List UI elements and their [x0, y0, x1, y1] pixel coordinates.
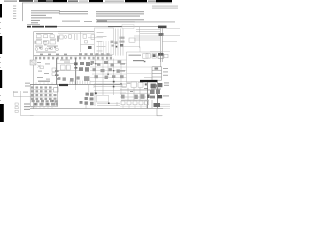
connector CN301 — [158, 26, 167, 62]
resistors R401-R408 — [37, 60, 70, 80]
resistors R216-R225 on bus — [40, 53, 110, 55]
wire deck outputs — [76, 85, 95, 92]
resistors R601-R613 coupling — [91, 60, 124, 79]
node audio junctions — [95, 63, 114, 75]
deck pcb outline — [30, 85, 57, 107]
wire input to IC601 — [144, 77, 152, 79]
connector CN403 pins — [36, 82, 52, 84]
C701 row value labels — [31, 106, 35, 107]
IC601 reference label — [133, 60, 144, 61]
AM tuner unit outline X201 — [95, 28, 114, 55]
wire B+ feed to IC601 — [160, 52, 162, 67]
wire main ground rail — [55, 58, 58, 85]
detector coil L203 — [81, 32, 95, 52]
wire IF signal rails — [58, 32, 94, 34]
logic ICs IC401 IC402 — [57, 64, 80, 71]
wire control bus to front panel — [116, 29, 124, 56]
power amp Q701 Q702 IC704 — [120, 82, 150, 100]
capacitors C210 C212 C214 — [39, 47, 56, 50]
relay RY701 coil — [158, 53, 164, 56]
resistors R201-R215 value labels — [35, 46, 58, 53]
AC power transformer T702 — [154, 103, 161, 107]
main pcb outline left — [34, 32, 94, 109]
motor servo Q401-Q404 cluster — [79, 62, 92, 72]
wire B+ rail — [74, 58, 77, 85]
transistors Q601-Q606 mute cluster — [80, 93, 94, 106]
IF transformers T205 T206 — [83, 34, 95, 39]
wire supply rails to output — [148, 82, 158, 108]
capacitors C220-C236 decoupling row — [35, 57, 112, 60]
deck section label — [38, 81, 50, 82]
relay RY701 contacts — [158, 56, 164, 59]
heatsink regulator IC701 — [153, 54, 156, 57]
binding fold marks — [0, 22, 1, 101]
wire AM/FM B+ bus — [34, 54, 113, 57]
connector CN601 pin stubs — [120, 63, 125, 72]
header model text — [4, 0, 17, 2]
diodes D701 D702 — [145, 83, 150, 98]
IF strip CF201 Q206 T204 — [60, 34, 78, 40]
trimmer capacitor CT401 — [38, 65, 41, 68]
terminal labels L/R — [24, 103, 30, 110]
wire mute cluster leads — [86, 92, 95, 108]
C712 row value labels — [121, 99, 149, 102]
wire ladder feed — [139, 27, 141, 48]
notes small top-right — [152, 6, 178, 9]
wire capacitor ground leads — [123, 105, 147, 108]
emitter resistors R701-R706 — [121, 83, 148, 99]
IC601 internal block — [155, 67, 159, 69]
speaker terminals J101-J103 — [15, 103, 18, 112]
op-amp IC601 — [152, 67, 162, 80]
line amp block outline — [97, 95, 109, 102]
top border line of schematic — [57, 25, 160, 28]
horizontal rule under header — [22, 2, 172, 5]
FM front-end L201 / L202 — [36, 41, 55, 44]
cassette mechanism switches S401 S402 — [40, 66, 56, 75]
wire speaker output harness — [14, 91, 34, 116]
wire to power block — [122, 47, 140, 52]
transistors Q501-Q520 bias network — [31, 86, 52, 100]
AC power transformer T702 leads — [152, 100, 162, 116]
connector CN401 — [59, 84, 68, 86]
node speaker junction — [108, 103, 110, 105]
capacitors C201-C208 — [35, 36, 59, 46]
shield case tuner — [30, 60, 36, 65]
bias oscillator T501 — [54, 88, 58, 92]
resistors R301 R302 — [120, 37, 125, 47]
wire AC feed — [150, 51, 170, 53]
node B+ junction — [144, 61, 146, 62]
bottom faint fold line — [30, 114, 163, 117]
ground lugs — [25, 83, 30, 87]
wire supply ladder to CN301 — [134, 30, 160, 41]
legend items — [13, 6, 16, 20]
wire ground return — [120, 105, 147, 107]
speaker harness labels — [13, 92, 28, 93]
wire speaker outputs — [97, 103, 120, 105]
wire audio signal lines — [90, 60, 127, 78]
wire AC cord — [160, 104, 170, 106]
fuse F701 — [116, 102, 118, 106]
node output junctions — [95, 81, 122, 94]
legend bracket line — [21, 3, 24, 22]
rectifier D703-D706 block — [150, 84, 162, 98]
binding edge black bars — [0, 4, 4, 122]
wire audio crossovers — [103, 59, 121, 85]
capacitors C401 C402 on rail — [74, 62, 78, 68]
notes paragraph left — [27, 10, 88, 25]
wire AM antenna lead — [88, 37, 103, 39]
transformer T701 primary — [151, 83, 163, 88]
heatsink power amp — [140, 80, 158, 82]
notes paragraph right — [96, 11, 144, 22]
capacitors C501 C502 — [54, 94, 57, 100]
wire AM tuner unit leads — [99, 41, 112, 54]
deck part value labels — [31, 89, 53, 97]
faint box on top line — [122, 25, 134, 29]
node ground rail junctions — [55, 70, 60, 79]
pcb bottom border — [30, 107, 163, 110]
node PLL VT junction — [116, 46, 118, 48]
IF transformers T201 T202 T203 — [37, 35, 55, 38]
T701 terminal labels — [163, 82, 169, 96]
header title bar segments — [19, 0, 172, 2]
filter capacitors C712-C716 row — [121, 101, 149, 105]
capacitors C410-C414 — [58, 76, 89, 81]
connector CN402 pins — [70, 81, 90, 84]
node bus junction — [120, 44, 123, 47]
transistors Q201-Q205 — [35, 47, 58, 51]
power supply block outline — [127, 52, 164, 84]
wire deck box edge — [57, 85, 59, 92]
AM tuner unit part labels — [97, 32, 107, 51]
wire power block rails — [127, 67, 152, 74]
wire leads to speaker page — [162, 28, 180, 41]
connector CN302 — [159, 33, 164, 36]
IC601 pin 1-3 labels — [163, 68, 168, 76]
power supply block label — [129, 55, 142, 56]
regulators IC701 IC702 IC703 — [146, 54, 168, 59]
wire output feeds — [96, 55, 122, 96]
destination labels row above schematic — [62, 20, 175, 22]
PLL IC201 cluster — [111, 41, 118, 47]
ceramic filter CF202 — [88, 46, 92, 49]
wire output bus — [90, 82, 150, 94]
tuner labels row1 — [36, 33, 56, 40]
electrolytics C701-C711 row — [32, 100, 58, 106]
relay RY301 — [129, 38, 135, 42]
wire deck section bus — [30, 83, 120, 86]
section title SCHEMATIC DIAGRAM — [27, 26, 57, 28]
bold label on top line — [108, 26, 122, 27]
